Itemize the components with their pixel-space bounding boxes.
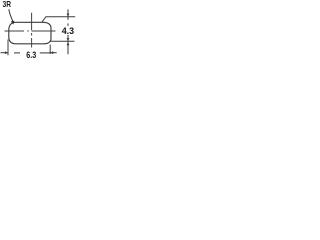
4.3 upper arrowhead (points down, tip on top extension line) xyxy=(67,14,70,17)
bottom extension line for 4.3 dimension xyxy=(50,40,75,42)
4.3 dimension small tick below upper segment xyxy=(67,23,69,26)
4.3 dimension upper segment xyxy=(67,9,69,19)
key outline rounded rectangle xyxy=(9,22,51,44)
svg-text:3R: 3R xyxy=(3,0,12,9)
svg-text:6.3: 6.3 xyxy=(26,50,36,61)
6.3 dimension line left tail with right-pointing arrowhead xyxy=(1,52,9,54)
top extension line for 4.3 dimension (oblique then horizontal) xyxy=(42,17,75,23)
4.3 dimension lower segment xyxy=(67,35,69,55)
4.3 lower arrowhead (points down, tip on bottom extension line) xyxy=(67,38,70,41)
left extension line for 6.3 dimension xyxy=(7,40,9,56)
leader line from 3R xyxy=(9,9,13,22)
right extension line for 6.3 dimension xyxy=(49,45,51,54)
6.3 dimension line segment right of text xyxy=(40,52,50,54)
6.3 dimension short middle dash xyxy=(14,52,20,54)
4.3 up-pointing arrowhead below bottom extension line xyxy=(67,42,70,45)
leader arrowhead xyxy=(11,21,14,25)
horizontal centerline xyxy=(5,30,56,32)
vertical centerline xyxy=(31,13,33,48)
6.3 dimension line right tail with left-pointing arrowhead xyxy=(50,52,57,54)
